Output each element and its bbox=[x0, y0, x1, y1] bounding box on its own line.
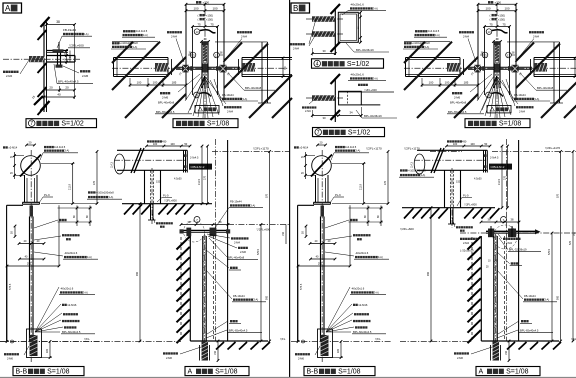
svg-text:900: 900 bbox=[557, 295, 560, 300]
planB left beam bbox=[406, 57, 461, 59]
caption sectionA bbox=[13, 367, 84, 376]
svg-text:BPL-40x40x8: BPL-40x40x8 bbox=[537, 86, 554, 90]
sectionB left dims lower bbox=[305, 226, 307, 237]
svg-text:▽2FL+800: ▽2FL+800 bbox=[164, 199, 177, 203]
sectionB ground line bbox=[291, 341, 391, 343]
caption sectionB bbox=[304, 367, 375, 376]
planA frame verticals bbox=[185, 4, 187, 100]
sectionB footing bbox=[318, 329, 333, 358]
sectionB right labels upper bbox=[350, 219, 352, 221]
detail4B wall breaks bbox=[331, 4, 341, 14]
svg-text:12-M16: 12-M16 bbox=[358, 303, 368, 307]
svg-text:20: 20 bbox=[65, 86, 69, 90]
svg-text:BPL-32x36x19: BPL-32x36x19 bbox=[364, 114, 382, 118]
svg-text:900: 900 bbox=[266, 295, 269, 300]
svg-text:100: 100 bbox=[137, 81, 142, 85]
elevB inset slab bbox=[402, 207, 495, 209]
detail7A label bolt 2-M6 bbox=[80, 70, 82, 72]
svg-text:(3-A): (3-A) bbox=[132, 45, 138, 49]
svg-text:19: 19 bbox=[68, 54, 72, 58]
sectionA dim 212.9 bbox=[72, 164, 74, 204]
svg-text:150: 150 bbox=[214, 350, 217, 355]
svg-text:2-M4: 2-M4 bbox=[234, 241, 240, 245]
svg-text:S=1/08: S=1/08 bbox=[215, 369, 237, 376]
svg-text:575.5: 575.5 bbox=[548, 248, 551, 255]
sectionA concrete edge bbox=[7, 204, 23, 206]
planB center lines bbox=[404, 67, 576, 69]
svg-text:270: 270 bbox=[384, 180, 387, 185]
svg-text:B-B: B-B bbox=[307, 369, 319, 376]
detail4B right dims bbox=[360, 12, 362, 42]
svg-text:x2-M14: x2-M14 bbox=[9, 145, 18, 149]
svg-text:B-B: B-B bbox=[16, 369, 28, 376]
elevB inset right dims bbox=[501, 146, 503, 208]
svg-text:270: 270 bbox=[504, 175, 507, 180]
sectionB concrete edge bbox=[298, 204, 314, 206]
planB right anchor hatched bbox=[534, 63, 547, 72]
svg-text:-40x20x1.6: -40x20x1.6 bbox=[350, 2, 364, 6]
svg-text:H-100x100x6x8: H-100x100x6x8 bbox=[120, 41, 139, 45]
planB dim 90 bbox=[574, 58, 576, 77]
svg-text:▽2FL+800: ▽2FL+800 bbox=[464, 203, 477, 207]
planB frame verticals bbox=[477, 4, 479, 100]
svg-text:H-100x100x6x8: H-100x100x6x8 bbox=[408, 168, 427, 172]
planB right verticals bbox=[553, 42, 555, 103]
svg-text:FB-19x44: FB-19x44 bbox=[63, 28, 76, 32]
svg-text:+150): +150) bbox=[498, 17, 505, 21]
svg-text:2-M6: 2-M6 bbox=[454, 95, 461, 99]
planB hatch diagonals bbox=[404, 42, 425, 63]
elevA ground bbox=[190, 340, 268, 342]
elevA bottom label bbox=[163, 352, 165, 354]
svg-text:575.5: 575.5 bbox=[257, 248, 260, 255]
elevA inset end plate bbox=[183, 150, 185, 172]
svg-text:(: ( bbox=[490, 17, 491, 21]
detail7B chem bolt label bbox=[302, 106, 304, 108]
svg-text:270: 270 bbox=[93, 180, 96, 185]
svg-text:BPL-40x40x8: BPL-40x40x8 bbox=[158, 101, 175, 105]
svg-text:BPL-32x36x19: BPL-32x36x19 bbox=[509, 248, 527, 252]
svg-text:575.5: 575.5 bbox=[300, 283, 303, 290]
svg-text:BPL-65x40x4.5: BPL-65x40x4.5 bbox=[448, 110, 467, 114]
svg-text:(3-A): (3-A) bbox=[355, 149, 361, 153]
sectionB pipe label bbox=[335, 146, 337, 148]
detail7A flange plate bbox=[47, 50, 68, 52]
elevB bottom label bbox=[454, 352, 456, 354]
svg-text:570: 570 bbox=[569, 240, 572, 245]
svg-text:H-100x100x6x8: H-100x100x6x8 bbox=[96, 190, 115, 194]
planA side balloons bbox=[190, 52, 196, 58]
svg-text:212.5: 212.5 bbox=[198, 178, 201, 185]
planB top dim column 200 bbox=[488, 1, 490, 4]
svg-text:75: 75 bbox=[197, 22, 201, 26]
elevB footing bbox=[493, 341, 500, 361]
planB balloon 13 bbox=[486, 29, 492, 35]
planA left bottom dim bbox=[130, 84, 186, 86]
elevA footing bbox=[202, 341, 209, 361]
svg-text:▽2FL+600: ▽2FL+600 bbox=[257, 228, 271, 232]
planB leader fan bbox=[480, 76, 497, 113]
sectionB dim80 lines bbox=[367, 206, 369, 227]
detail7A centerline bbox=[3, 58, 80, 60]
svg-text:(3-A): (3-A) bbox=[420, 173, 426, 177]
svg-text:C65x2-M12: C65x2-M12 bbox=[491, 165, 505, 169]
sectionA bottom label bbox=[4, 353, 6, 355]
planA right anchor hatched bbox=[242, 63, 255, 72]
svg-text:212.9: 212.9 bbox=[360, 183, 363, 190]
svg-text:7: 7 bbox=[30, 121, 33, 127]
svg-text:(3-A): (3-A) bbox=[372, 76, 378, 80]
planA A-elev marker box bbox=[195, 106, 219, 113]
sectionB left dims bbox=[305, 152, 307, 179]
svg-text:S=1/08: S=1/08 bbox=[499, 121, 521, 128]
planA leader fan bbox=[188, 76, 205, 113]
svg-text:(3-A): (3-A) bbox=[372, 6, 378, 10]
svg-text:100: 100 bbox=[170, 142, 175, 146]
svg-text:▽FL: ▽FL bbox=[571, 337, 576, 341]
svg-text:(3-A): (3-A) bbox=[242, 97, 248, 101]
svg-text:PL-9: PL-9 bbox=[463, 193, 469, 197]
elevB post bbox=[493, 236, 495, 341]
svg-text:▽2FL+1170: ▽2FL+1170 bbox=[253, 147, 269, 151]
svg-text:S=1/08: S=1/08 bbox=[47, 369, 69, 376]
svg-text:34: 34 bbox=[349, 110, 353, 114]
plan-A title box bbox=[3, 3, 22, 13]
elevA inset slab bbox=[122, 203, 212, 205]
detail7B wall line bbox=[334, 78, 336, 122]
svg-text:BPL-60x40x4.5: BPL-60x40x4.5 bbox=[353, 330, 372, 334]
svg-text:490: 490 bbox=[162, 139, 167, 143]
detail4B tube section bbox=[338, 12, 358, 42]
elevB balloon bbox=[501, 217, 507, 223]
elevB wall strip bbox=[471, 237, 473, 341]
svg-text:100: 100 bbox=[470, 142, 475, 146]
svg-text:S=1/08: S=1/08 bbox=[207, 121, 229, 128]
svg-text:A: A bbox=[188, 369, 193, 376]
svg-text:100: 100 bbox=[453, 142, 458, 146]
detail7B wall breaks bbox=[331, 74, 341, 84]
svg-text:2-9x4.5: 2-9x4.5 bbox=[190, 157, 199, 160]
elevB inset bracket body bbox=[444, 170, 446, 207]
svg-text:13: 13 bbox=[483, 53, 487, 57]
detail7A wall hatch bbox=[38, 30, 47, 40]
svg-text:38: 38 bbox=[56, 20, 60, 24]
svg-text:75: 75 bbox=[489, 22, 493, 26]
svg-text:(3-A): (3-A) bbox=[142, 33, 148, 37]
svg-text:570: 570 bbox=[266, 193, 269, 198]
svg-text:B: B bbox=[293, 4, 298, 13]
svg-text:-40x20x1.6: -40x20x1.6 bbox=[350, 72, 364, 76]
svg-text:(3-A): (3-A) bbox=[250, 203, 256, 207]
svg-text:2-M4: 2-M4 bbox=[519, 109, 525, 113]
elevA balloon bbox=[194, 217, 200, 223]
svg-text:2-M4: 2-M4 bbox=[171, 34, 177, 38]
svg-text:75: 75 bbox=[210, 22, 214, 26]
detail7A wall break marks bbox=[41, 17, 50, 27]
planA balloon 13 bbox=[194, 29, 200, 35]
svg-text:2-M4: 2-M4 bbox=[463, 34, 469, 38]
svg-text:2-M6: 2-M6 bbox=[166, 356, 172, 360]
planA hatch diagonals bbox=[112, 42, 133, 63]
svg-text:100: 100 bbox=[212, 7, 217, 11]
svg-text:-40x20x1.6: -40x20x1.6 bbox=[355, 251, 369, 255]
svg-text:H-100x100x6x8: H-100x100x6x8 bbox=[412, 41, 431, 45]
svg-text:FB-19x44: FB-19x44 bbox=[230, 200, 242, 204]
planB side balloons bbox=[482, 52, 488, 58]
sectionB top label bbox=[294, 146, 296, 148]
elevB inset top dim bbox=[447, 140, 449, 142]
caption elevB bbox=[476, 367, 540, 376]
planA left beam bbox=[114, 57, 169, 59]
svg-text:2-M6: 2-M6 bbox=[162, 95, 169, 99]
svg-text:2-M6: 2-M6 bbox=[240, 250, 246, 254]
svg-text:114.3x4.5: 114.3x4.5 bbox=[54, 145, 66, 149]
elevA right dims bbox=[260, 225, 262, 342]
planB left anchor hatched bbox=[447, 63, 460, 72]
svg-text:▽2FL+1170: ▽2FL+1170 bbox=[404, 147, 420, 151]
svg-text:2-M4: 2-M4 bbox=[241, 34, 247, 38]
svg-text:2-M6: 2-M6 bbox=[7, 357, 13, 361]
detail7B centerline bbox=[306, 97, 343, 99]
svg-text:2-M4: 2-M4 bbox=[305, 110, 311, 113]
svg-text:PL-9: PL-9 bbox=[163, 193, 169, 197]
svg-text:BPL-60x40x4.5: BPL-60x40x4.5 bbox=[62, 330, 81, 334]
svg-text:S=1/02: S=1/02 bbox=[61, 121, 83, 128]
elevA inset bracket body bbox=[144, 170, 146, 203]
detail7B dims bbox=[312, 115, 361, 117]
sectionB footing dim bbox=[340, 342, 342, 358]
sectionA pipe circle bbox=[21, 156, 41, 176]
svg-text:(3-A): (3-A) bbox=[534, 97, 540, 101]
svg-text:-40x20x1.6: -40x20x1.6 bbox=[351, 286, 365, 290]
sectionA right labels upper bbox=[59, 219, 61, 221]
sheet bottom border bbox=[0, 376, 576, 378]
svg-text:7: 7 bbox=[317, 130, 320, 136]
planB post tube bbox=[493, 42, 495, 88]
svg-text:2-M4: 2-M4 bbox=[506, 241, 512, 245]
svg-text:575.5: 575.5 bbox=[9, 283, 12, 290]
svg-text:900: 900 bbox=[136, 271, 139, 276]
svg-text:x2-M14: x2-M14 bbox=[300, 145, 309, 149]
svg-text:▽2FL+1170: ▽2FL+1170 bbox=[366, 147, 382, 151]
svg-text:100: 100 bbox=[193, 7, 198, 11]
detail7A horizontal member bbox=[47, 55, 76, 57]
svg-text:▽FL: ▽FL bbox=[280, 337, 286, 341]
elevA inset top dim bbox=[147, 140, 149, 142]
svg-text:(3-A): (3-A) bbox=[424, 45, 430, 49]
sectionA pipe label bbox=[44, 146, 46, 148]
svg-text:(3-A): (3-A) bbox=[377, 255, 383, 259]
elevB inset beam bbox=[417, 149, 487, 151]
svg-text:75: 75 bbox=[502, 22, 506, 26]
svg-text:BPL-40x40x4.5: BPL-40x40x4.5 bbox=[58, 80, 79, 84]
svg-text:13: 13 bbox=[191, 53, 195, 57]
detail7A bolt stem bbox=[58, 42, 60, 51]
svg-text:13: 13 bbox=[487, 30, 491, 34]
planA post tube bbox=[201, 42, 203, 88]
elevB inset anchor bbox=[450, 208, 452, 224]
svg-text:-40x20x1.6: -40x20x1.6 bbox=[64, 251, 78, 255]
planB hatch top boundary left bbox=[404, 41, 450, 43]
svg-text:4.5x50: 4.5x50 bbox=[174, 177, 182, 180]
sectionA post bbox=[29, 217, 31, 342]
caption detail7B bbox=[313, 128, 385, 137]
svg-text:FB-19x44: FB-19x44 bbox=[233, 294, 245, 298]
svg-text:212.5: 212.5 bbox=[498, 178, 501, 185]
svg-text:212.9: 212.9 bbox=[69, 183, 72, 190]
planB A-elev marker box bbox=[487, 106, 511, 113]
elevB right dims bbox=[551, 233, 553, 341]
svg-text:100: 100 bbox=[445, 81, 450, 85]
sectionA footing dim bbox=[49, 342, 51, 358]
detail4B centerlines bbox=[306, 18, 343, 20]
svg-text:C65x2-M12: C65x2-M12 bbox=[191, 165, 205, 169]
elevA post bbox=[202, 236, 204, 341]
detail7A wall line bbox=[43, 22, 45, 112]
detail7B bolt weld label bbox=[358, 84, 360, 86]
planA hatch top boundary left bbox=[112, 41, 158, 43]
elevB inset end plate bbox=[483, 150, 485, 172]
svg-text:13: 13 bbox=[507, 53, 511, 57]
detail7A bottom dims bbox=[44, 89, 75, 91]
svg-text:FB-19x44: FB-19x44 bbox=[514, 93, 526, 97]
planA center lines bbox=[112, 67, 288, 69]
svg-text:A: A bbox=[5, 4, 11, 13]
svg-text:2-M6: 2-M6 bbox=[298, 357, 304, 361]
sheet divider line bbox=[289, 0, 291, 377]
svg-text:30: 30 bbox=[322, 116, 326, 120]
svg-text:▽2FL+1170: ▽2FL+1170 bbox=[545, 146, 560, 150]
elevB bracket bar bbox=[486, 230, 535, 232]
svg-text:(3-A): (3-A) bbox=[544, 298, 550, 302]
planA center bolt assembly bbox=[176, 66, 240, 68]
svg-text:BPL-40x40x8: BPL-40x40x8 bbox=[245, 86, 262, 90]
sectionA anchor block bbox=[30, 206, 34, 217]
planA top-left labels bbox=[123, 30, 125, 32]
sectionA top label bbox=[3, 146, 5, 148]
svg-text:-40x20x1.6: -40x20x1.6 bbox=[60, 286, 74, 290]
sectionA left dims lower bbox=[14, 226, 16, 237]
sectionB anchor block bbox=[321, 206, 325, 217]
sectionA ground line bbox=[0, 341, 100, 343]
svg-text:S=1/02: S=1/02 bbox=[348, 130, 370, 137]
caption planB bbox=[465, 119, 530, 128]
svg-text:114.3x4.5: 114.3x4.5 bbox=[136, 29, 148, 33]
detail7A top dim 38 bbox=[47, 24, 75, 26]
detail7B tube bbox=[339, 91, 362, 105]
elevA wall strip bbox=[180, 237, 182, 341]
planB left bottom dim bbox=[422, 84, 478, 86]
svg-text:(3-A): (3-A) bbox=[373, 290, 379, 294]
svg-text:BPL-65x40x4.5: BPL-65x40x4.5 bbox=[156, 110, 175, 114]
svg-text:13: 13 bbox=[215, 53, 219, 57]
planB right beam bbox=[534, 57, 576, 59]
plan-B title box bbox=[291, 3, 310, 13]
svg-text:20: 20 bbox=[49, 86, 53, 90]
svg-text:A: A bbox=[479, 369, 484, 376]
svg-text:290: 290 bbox=[27, 262, 32, 266]
sectionB flange bbox=[314, 201, 331, 203]
svg-text:BPL-65x40x4.5: BPL-65x40x4.5 bbox=[520, 328, 539, 332]
svg-text:30: 30 bbox=[322, 49, 326, 53]
svg-text:2-M6: 2-M6 bbox=[82, 74, 89, 78]
caption planA bbox=[173, 119, 238, 128]
planA left anchor hatched bbox=[155, 63, 168, 72]
svg-text:▽2FL+600: ▽2FL+600 bbox=[400, 227, 414, 231]
svg-text:4: 4 bbox=[316, 62, 319, 68]
planA right verticals bbox=[261, 42, 263, 103]
svg-text:+150): +150) bbox=[206, 17, 213, 21]
svg-text:▽2FL+600: ▽2FL+600 bbox=[364, 88, 377, 92]
detail4B wall line bbox=[334, 8, 336, 55]
svg-text:2-M4: 2-M4 bbox=[6, 74, 13, 78]
svg-text:(3-A): (3-A) bbox=[108, 195, 114, 199]
sectionA pipe walls bbox=[24, 175, 26, 202]
svg-text:900: 900 bbox=[427, 271, 430, 276]
svg-text:S=1/08: S=1/08 bbox=[338, 369, 360, 376]
svg-text:13: 13 bbox=[195, 30, 199, 34]
sectionA left dims bbox=[14, 152, 16, 179]
elevA inset right dims bbox=[201, 146, 203, 204]
planB top-left labels bbox=[415, 30, 417, 32]
svg-text:180: 180 bbox=[46, 348, 49, 353]
detail7A bolt bbox=[57, 53, 59, 66]
svg-text:PL-9: PL-9 bbox=[44, 193, 50, 197]
detail4B label chem bolt bbox=[290, 43, 292, 45]
elevB right labels bbox=[503, 238, 505, 240]
svg-text:114.3: 114.3 bbox=[411, 162, 414, 168]
sectionB pipe walls bbox=[315, 175, 317, 202]
planA dim 90 bbox=[282, 58, 284, 77]
svg-text:S=1/08: S=1/08 bbox=[506, 369, 528, 376]
elevB footing dim bbox=[508, 341, 510, 361]
svg-text:4.5x50: 4.5x50 bbox=[474, 177, 482, 180]
svg-text:90: 90 bbox=[283, 66, 287, 70]
sectionA dim80 lines bbox=[76, 206, 78, 227]
planB balloon13 low bbox=[486, 92, 492, 98]
svg-text:150: 150 bbox=[505, 350, 508, 355]
svg-text:▽2FL+600: ▽2FL+600 bbox=[69, 44, 84, 48]
svg-text:BPL-40x40x8: BPL-40x40x8 bbox=[228, 255, 245, 259]
caption detail7A bbox=[26, 119, 97, 128]
caption elevA bbox=[185, 367, 249, 376]
svg-text:(3-A): (3-A) bbox=[86, 255, 92, 259]
sectionA dim 270 bbox=[96, 152, 98, 204]
sectionB dim 212.9 bbox=[363, 164, 365, 204]
svg-text:2-M4: 2-M4 bbox=[227, 109, 233, 113]
svg-text:(: ( bbox=[198, 17, 199, 21]
svg-text:▽FL: ▽FL bbox=[375, 337, 381, 341]
planB bottom left labels bbox=[452, 92, 454, 94]
planB chem bolt labels top bbox=[459, 31, 461, 33]
svg-text:180: 180 bbox=[337, 348, 340, 353]
svg-text:570: 570 bbox=[557, 193, 560, 198]
svg-text:S=1/02: S=1/02 bbox=[347, 61, 369, 68]
sectionB bottom label bbox=[295, 353, 297, 355]
detail4B dim 30 bbox=[312, 53, 335, 55]
detail7A anchor hatched bbox=[29, 56, 44, 62]
svg-text:2-9x4.5: 2-9x4.5 bbox=[490, 157, 499, 160]
svg-text:BPL-40x40x8: BPL-40x40x8 bbox=[450, 101, 467, 105]
svg-text:100: 100 bbox=[485, 7, 490, 11]
svg-text:(3-A): (3-A) bbox=[64, 149, 70, 153]
svg-text:(3-A): (3-A) bbox=[82, 290, 88, 294]
svg-text:100: 100 bbox=[504, 7, 509, 11]
elevB ground bbox=[481, 340, 559, 342]
svg-text:2-M4: 2-M4 bbox=[463, 241, 469, 245]
svg-text:BPL-32x36x19: BPL-32x36x19 bbox=[356, 48, 374, 52]
svg-text:2-M4: 2-M4 bbox=[293, 47, 299, 51]
